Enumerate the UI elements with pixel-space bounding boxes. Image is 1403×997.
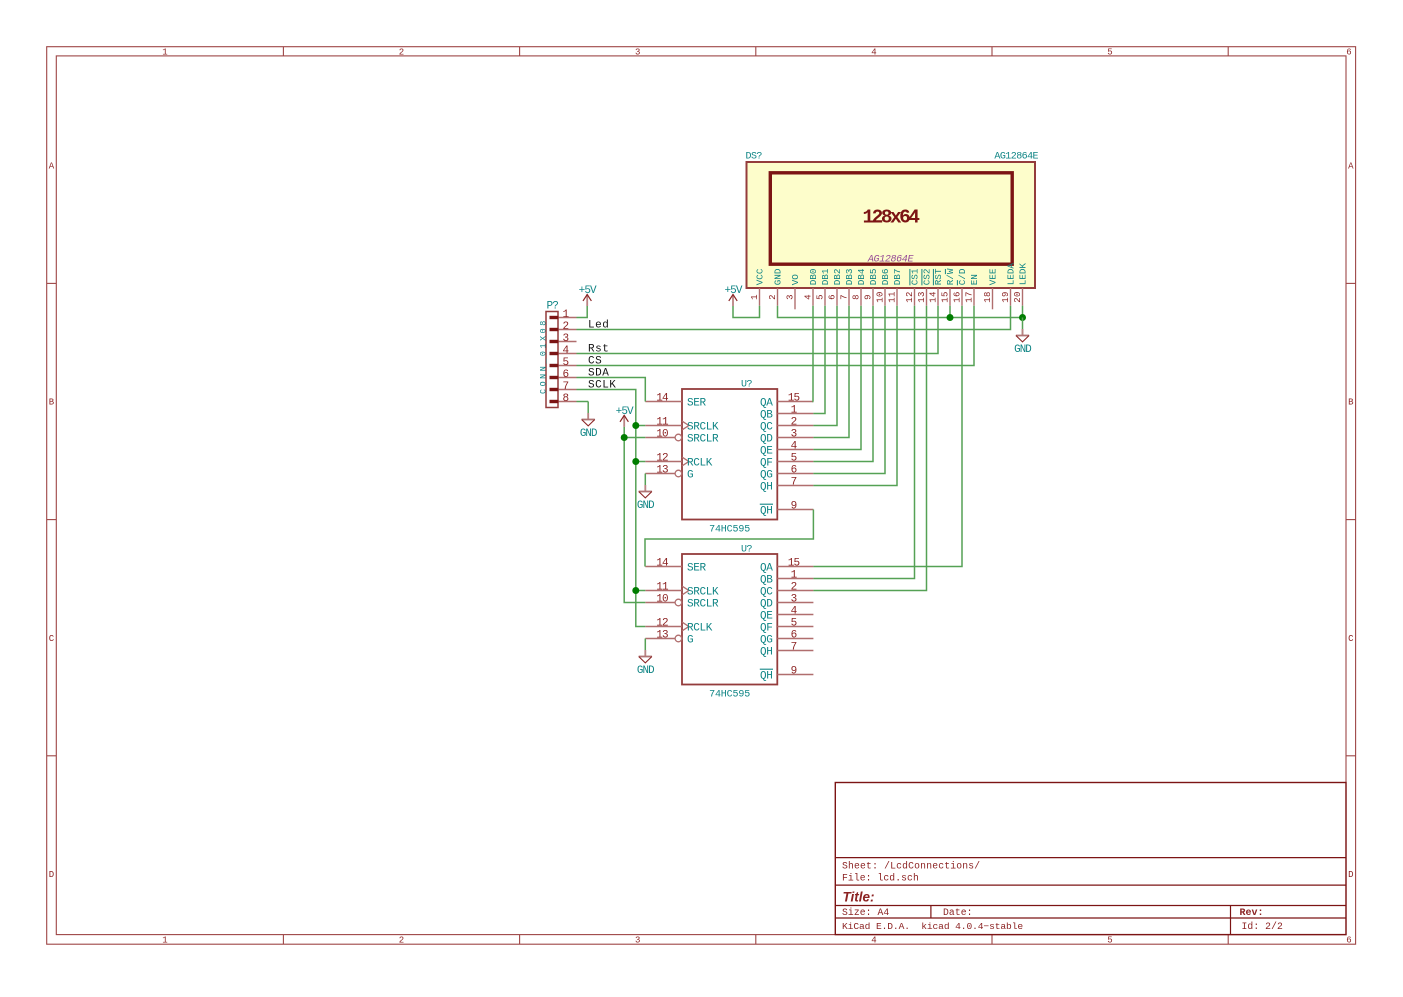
svg-text:R/W: R/W bbox=[945, 268, 956, 285]
svg-text:GND: GND bbox=[637, 500, 654, 512]
svg-text:Date:: Date: bbox=[943, 907, 973, 918]
svg-text:1: 1 bbox=[750, 294, 760, 300]
svg-text:QB: QB bbox=[760, 575, 773, 587]
svg-text:G: G bbox=[687, 470, 693, 482]
svg-text:D: D bbox=[49, 870, 54, 880]
svg-text:Rst: Rst bbox=[588, 344, 609, 356]
svg-text:DB5: DB5 bbox=[868, 269, 879, 286]
svg-text:KiCad E.D.A. kicad 4.0.4−stab: KiCad E.D.A. kicad 4.0.4−stable bbox=[842, 921, 1023, 932]
svg-text:16: 16 bbox=[952, 291, 962, 302]
svg-text:DB6: DB6 bbox=[880, 269, 891, 286]
svg-text:CS: CS bbox=[588, 356, 602, 368]
svg-text:Led: Led bbox=[588, 320, 609, 332]
svg-text:QD: QD bbox=[760, 599, 773, 611]
svg-text:12: 12 bbox=[656, 453, 668, 465]
svg-text:EN: EN bbox=[969, 274, 980, 285]
svg-text:8: 8 bbox=[851, 294, 861, 300]
svg-text:15: 15 bbox=[788, 393, 800, 405]
svg-text:Rev:: Rev: bbox=[1240, 908, 1264, 919]
svg-text:A: A bbox=[1348, 162, 1354, 172]
svg-text:6: 6 bbox=[1346, 935, 1351, 945]
svg-text:DB7: DB7 bbox=[892, 269, 903, 286]
svg-text:19: 19 bbox=[1001, 291, 1011, 302]
svg-text:14: 14 bbox=[928, 291, 938, 302]
svg-text:DS?: DS? bbox=[746, 152, 763, 163]
svg-text:G: G bbox=[687, 635, 693, 647]
svg-text:10: 10 bbox=[875, 291, 885, 302]
svg-text:RCLK: RCLK bbox=[687, 623, 713, 635]
svg-text:A: A bbox=[49, 162, 55, 172]
svg-text:2: 2 bbox=[399, 935, 404, 945]
svg-text:6: 6 bbox=[563, 369, 569, 381]
svg-text:5: 5 bbox=[563, 357, 569, 369]
svg-text:8: 8 bbox=[563, 393, 569, 405]
svg-text:D: D bbox=[1348, 870, 1353, 880]
svg-text:SRCLR: SRCLR bbox=[687, 434, 719, 446]
svg-text:5: 5 bbox=[791, 618, 797, 630]
svg-text:7: 7 bbox=[563, 381, 569, 393]
svg-text:3: 3 bbox=[785, 294, 795, 300]
svg-text:VEE: VEE bbox=[988, 268, 999, 285]
svg-text:P?: P? bbox=[547, 300, 559, 312]
svg-text:+5V: +5V bbox=[724, 285, 742, 297]
svg-text:7: 7 bbox=[839, 294, 849, 300]
svg-text:9: 9 bbox=[791, 501, 797, 513]
svg-text:5: 5 bbox=[791, 453, 797, 465]
svg-text:U?: U? bbox=[741, 545, 752, 556]
svg-text:4: 4 bbox=[871, 47, 876, 57]
svg-text:CS1: CS1 bbox=[910, 268, 921, 285]
svg-text:QE: QE bbox=[760, 611, 773, 623]
svg-text:QB: QB bbox=[760, 410, 773, 422]
svg-text:4: 4 bbox=[803, 294, 813, 300]
svg-text:4: 4 bbox=[871, 935, 876, 945]
svg-text:Sheet: /LcdConnections/: Sheet: /LcdConnections/ bbox=[842, 861, 980, 872]
svg-text:13: 13 bbox=[917, 291, 927, 302]
svg-text:11: 11 bbox=[656, 417, 669, 429]
svg-text:QC: QC bbox=[760, 422, 773, 434]
svg-text:3: 3 bbox=[635, 47, 640, 57]
svg-text:6: 6 bbox=[827, 294, 837, 300]
svg-text:15: 15 bbox=[788, 558, 800, 570]
svg-text:5: 5 bbox=[815, 294, 825, 300]
svg-text:U?: U? bbox=[741, 380, 752, 391]
svg-text:CONN_01X08: CONN_01X08 bbox=[539, 318, 549, 394]
svg-text:2: 2 bbox=[791, 582, 797, 594]
svg-text:C/D: C/D bbox=[957, 268, 968, 285]
svg-text:QD: QD bbox=[760, 434, 773, 446]
svg-text:3: 3 bbox=[635, 935, 640, 945]
svg-text:17: 17 bbox=[964, 291, 974, 302]
svg-text:12: 12 bbox=[656, 618, 668, 630]
svg-text:SER: SER bbox=[687, 563, 707, 575]
svg-text:6: 6 bbox=[791, 630, 797, 642]
svg-text:SRCLK: SRCLK bbox=[687, 422, 719, 434]
svg-text:11: 11 bbox=[656, 582, 669, 594]
svg-text:3: 3 bbox=[791, 429, 797, 441]
svg-text:GND: GND bbox=[580, 428, 597, 440]
svg-text:VCC: VCC bbox=[755, 268, 766, 285]
svg-text:QA: QA bbox=[760, 563, 773, 575]
svg-text:6: 6 bbox=[1346, 47, 1351, 57]
svg-text:Size: A4: Size: A4 bbox=[842, 907, 889, 918]
svg-text:3: 3 bbox=[791, 594, 797, 606]
svg-text:3: 3 bbox=[563, 333, 569, 345]
svg-text:LEDA: LEDA bbox=[1006, 263, 1017, 286]
svg-text:15: 15 bbox=[940, 291, 950, 302]
svg-text:5: 5 bbox=[1107, 47, 1112, 57]
svg-text:SER: SER bbox=[687, 398, 707, 410]
svg-text:QF: QF bbox=[760, 623, 773, 635]
svg-text:128x64: 128x64 bbox=[863, 206, 921, 228]
svg-text:GND: GND bbox=[1014, 344, 1031, 356]
svg-text:9: 9 bbox=[791, 666, 797, 678]
svg-text:DB1: DB1 bbox=[820, 268, 831, 285]
svg-text:13: 13 bbox=[656, 465, 668, 477]
svg-text:5: 5 bbox=[1107, 935, 1112, 945]
svg-text:74HC595: 74HC595 bbox=[709, 690, 750, 701]
svg-text:C: C bbox=[49, 634, 55, 644]
svg-text:LEDK: LEDK bbox=[1018, 263, 1029, 286]
svg-text:DB4: DB4 bbox=[856, 268, 867, 285]
svg-text:DB0: DB0 bbox=[808, 269, 819, 286]
svg-text:20: 20 bbox=[1013, 291, 1023, 302]
svg-text:2: 2 bbox=[399, 47, 404, 57]
svg-text:13: 13 bbox=[656, 630, 668, 642]
svg-text:VO: VO bbox=[790, 274, 801, 286]
svg-text:RST: RST bbox=[933, 268, 944, 285]
svg-text:RCLK: RCLK bbox=[687, 458, 713, 470]
svg-text:DB2: DB2 bbox=[832, 269, 843, 286]
svg-text:12: 12 bbox=[905, 291, 915, 302]
svg-text:74HC595: 74HC595 bbox=[709, 525, 750, 536]
svg-text:7: 7 bbox=[791, 477, 797, 489]
svg-text:+5V: +5V bbox=[616, 406, 634, 418]
svg-text:QH: QH bbox=[760, 506, 773, 518]
svg-text:QF: QF bbox=[760, 458, 773, 470]
svg-text:CS2: CS2 bbox=[922, 269, 933, 286]
svg-text:B: B bbox=[1348, 398, 1354, 408]
svg-text:QH: QH bbox=[760, 671, 773, 683]
svg-text:AG12864E: AG12864E bbox=[867, 255, 915, 266]
svg-text:B: B bbox=[49, 398, 55, 408]
svg-text:SCLK: SCLK bbox=[588, 380, 616, 392]
svg-text:14: 14 bbox=[656, 393, 669, 405]
svg-text:10: 10 bbox=[656, 429, 668, 441]
svg-text:7: 7 bbox=[791, 642, 797, 654]
svg-text:2: 2 bbox=[768, 294, 778, 300]
svg-text:11: 11 bbox=[887, 291, 897, 302]
svg-text:QH: QH bbox=[760, 647, 773, 659]
svg-text:AG12864E: AG12864E bbox=[994, 152, 1038, 163]
svg-text:QH: QH bbox=[760, 482, 773, 494]
svg-text:QA: QA bbox=[760, 398, 773, 410]
svg-text:+5V: +5V bbox=[579, 285, 597, 297]
svg-text:6: 6 bbox=[791, 465, 797, 477]
svg-text:SDA: SDA bbox=[588, 368, 609, 380]
svg-text:SRCLR: SRCLR bbox=[687, 599, 719, 611]
svg-text:9: 9 bbox=[863, 294, 873, 300]
svg-text:DB3: DB3 bbox=[844, 269, 855, 286]
svg-text:QG: QG bbox=[760, 470, 773, 482]
svg-text:File: lcd.sch: File: lcd.sch bbox=[842, 873, 919, 884]
svg-text:GND: GND bbox=[637, 665, 654, 677]
svg-text:QE: QE bbox=[760, 446, 773, 458]
svg-text:GND: GND bbox=[773, 268, 784, 285]
svg-text:QC: QC bbox=[760, 587, 773, 599]
svg-text:10: 10 bbox=[656, 594, 668, 606]
svg-text:14: 14 bbox=[656, 558, 669, 570]
svg-text:2: 2 bbox=[563, 321, 569, 333]
svg-text:QG: QG bbox=[760, 635, 773, 647]
svg-text:C: C bbox=[1348, 634, 1354, 644]
svg-text:SRCLK: SRCLK bbox=[687, 587, 719, 599]
svg-text:Title:: Title: bbox=[843, 890, 875, 905]
svg-text:18: 18 bbox=[983, 291, 993, 302]
svg-text:Id: 2/2: Id: 2/2 bbox=[1242, 921, 1283, 932]
svg-text:1: 1 bbox=[162, 935, 167, 945]
svg-text:2: 2 bbox=[791, 417, 797, 429]
svg-text:1: 1 bbox=[162, 47, 167, 57]
